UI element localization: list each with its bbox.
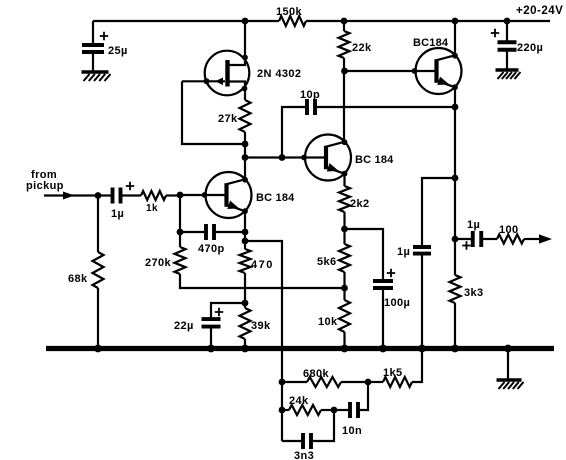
node 680k/1k5/10n junction xyxy=(365,379,372,386)
node output tee xyxy=(452,236,459,243)
wire 10n riser xyxy=(358,382,368,410)
svg-text:pickup: pickup xyxy=(26,180,64,192)
wire 10p to emitter line xyxy=(315,106,456,108)
capacitor 470p plates xyxy=(204,224,208,240)
svg-text:220µ: 220µ xyxy=(517,42,543,54)
resistor 680k xyxy=(307,377,341,387)
capacitor 10p plates xyxy=(305,99,309,115)
svg-text:470p: 470p xyxy=(198,243,225,255)
node rail/3k3 xyxy=(451,345,459,353)
resistor 470 xyxy=(240,249,251,273)
wire 68k to ground rail xyxy=(97,288,99,348)
node rail/100u xyxy=(379,345,387,353)
wire 1u to 100 xyxy=(482,238,498,240)
svg-text:3k3: 3k3 xyxy=(464,287,484,299)
svg-text:22k: 22k xyxy=(352,42,372,54)
svg-text:68k: 68k xyxy=(68,273,88,285)
svg-text:470: 470 xyxy=(251,259,274,271)
node rail/1u-1k5 xyxy=(418,345,426,353)
wire 100u to ground rail xyxy=(382,288,384,348)
wire 680k to node xyxy=(341,381,368,383)
polarity + of 100u xyxy=(387,269,395,277)
wire 5k6 to divider node xyxy=(343,272,345,300)
node rail/22u xyxy=(207,345,215,353)
node 1k/base junction xyxy=(177,192,184,199)
capacitor 220u plates xyxy=(498,40,517,44)
svg-text:BC 184: BC 184 xyxy=(256,192,295,204)
resistor 150k (series in rail) xyxy=(279,16,306,26)
wire node to Q2 collector xyxy=(244,157,246,180)
wire 680k left stub xyxy=(282,381,307,383)
capacitor 10n plates xyxy=(348,402,352,418)
node 470p/emitter junction xyxy=(242,229,249,236)
capacitor 3n3 plates xyxy=(301,433,305,449)
svg-text:680k: 680k xyxy=(303,368,330,380)
ground (under 220u) xyxy=(496,68,519,71)
wire base node down xyxy=(179,195,181,247)
wire Q4 base xyxy=(345,70,437,72)
svg-text:270k: 270k xyxy=(145,257,172,269)
svg-text:39k: 39k xyxy=(251,320,271,332)
wire gate loop xyxy=(182,81,245,144)
node 680k/24k branch xyxy=(279,379,286,386)
svg-text:5k6: 5k6 xyxy=(317,256,337,268)
resistor 5k6 xyxy=(339,244,350,272)
node divider junction xyxy=(341,285,348,292)
node Q4-base tee xyxy=(341,68,348,75)
svg-text:+20-24V: +20-24V xyxy=(516,5,563,17)
wire 24k left stub xyxy=(282,409,289,411)
wire Q3 base xyxy=(245,156,326,158)
node 100u tee xyxy=(341,226,348,233)
resistor 100 xyxy=(497,235,524,244)
gate lead with arrow xyxy=(182,80,225,82)
capacitor 1u (output) plates xyxy=(471,231,475,247)
wire output to 1u xyxy=(455,238,473,240)
node rail/10k xyxy=(341,345,349,353)
wire 270k elbow to divider xyxy=(180,274,344,288)
wire rail to C 25u xyxy=(92,21,94,44)
wire 39k to ground rail xyxy=(244,339,246,348)
wire input with arrow xyxy=(44,194,112,196)
wire 3n3 loop left xyxy=(282,440,303,442)
node feedback tee xyxy=(242,238,249,245)
wire output node to 3k3 xyxy=(454,239,456,275)
resistor 10k xyxy=(339,300,350,332)
node rail/22k junction xyxy=(341,18,348,25)
wire 1k5 left stub xyxy=(368,381,383,383)
wire rail to 22k xyxy=(343,21,345,31)
svg-text:22µ: 22µ xyxy=(174,320,194,332)
wire 22k to Q3 collector xyxy=(343,58,345,141)
svg-text:1k: 1k xyxy=(146,203,158,214)
transistor Q2 BC184 xyxy=(206,172,252,218)
svg-text:24k: 24k xyxy=(289,395,309,407)
polarity + of 25u xyxy=(100,32,108,40)
svg-text:10k: 10k xyxy=(318,316,338,328)
node rail/220u junction xyxy=(504,18,511,25)
wire Q4 collector riser xyxy=(454,21,456,56)
wire 10n left stub xyxy=(334,409,350,411)
transistor Q3 BC184 (middle) xyxy=(305,135,351,181)
resistor 22k xyxy=(339,31,350,58)
transistor Q4 BC184 (top right) xyxy=(416,48,462,94)
svg-text:1µ: 1µ xyxy=(111,208,124,220)
resistor 270k xyxy=(175,247,186,274)
svg-text:1µ: 1µ xyxy=(467,219,480,231)
wire feedback drop xyxy=(245,241,282,441)
node 24k branch xyxy=(279,407,286,414)
wire bootstrap elbow xyxy=(422,178,455,247)
polarity + of 22u xyxy=(215,308,223,316)
wire 27k to node xyxy=(244,132,246,157)
resistor 1k xyxy=(141,191,166,200)
wire bootstrap 1u to ground rail xyxy=(421,254,423,348)
wire Q4 emitter down xyxy=(454,87,456,239)
wire 22u to ground rail xyxy=(210,327,212,349)
ground (bottom right) xyxy=(497,378,522,381)
wire 10k to ground rail xyxy=(343,332,345,348)
node 27k/gate-loop junction xyxy=(242,141,249,148)
wire 68k top xyxy=(97,196,99,253)
wire 220u to ground xyxy=(506,50,508,70)
resistor 2k2 xyxy=(339,186,350,212)
node base-line tee xyxy=(242,154,249,161)
wire Q2 emitter down xyxy=(244,211,246,249)
resistor 1k5 xyxy=(383,377,412,387)
wire Q3 emitter to 2k2 xyxy=(343,174,345,186)
svg-text:BC184: BC184 xyxy=(413,37,449,49)
svg-text:2k2: 2k2 xyxy=(350,198,370,210)
wire ground stub xyxy=(507,348,509,380)
capacitor 1u (bootstrap) plates xyxy=(413,245,431,249)
wire rail to C 220u xyxy=(506,21,508,42)
wire Q2 base xyxy=(180,194,227,196)
node 24k/10n/3n3 junction xyxy=(331,407,338,414)
svg-text:10p: 10p xyxy=(300,89,320,101)
svg-text:25µ: 25µ xyxy=(108,45,128,57)
resistor 39k xyxy=(240,308,251,339)
wire 100u elbow xyxy=(345,229,384,281)
resistor 24k xyxy=(289,405,321,415)
svg-text:150k: 150k xyxy=(276,6,303,18)
svg-text:27k: 27k xyxy=(218,113,238,125)
capacitor 25u plates xyxy=(82,43,104,47)
node rail/68k xyxy=(94,345,102,353)
wire 470p right xyxy=(214,231,245,233)
node rail/Q4 collector xyxy=(452,18,459,25)
svg-text:10n: 10n xyxy=(342,425,362,437)
wire 3n3 loop right xyxy=(311,410,334,441)
wire 1k5 riser to rail xyxy=(412,350,422,382)
node 10p tap on base line xyxy=(279,154,286,161)
wire 25u to ground xyxy=(92,52,94,72)
svg-text:100: 100 xyxy=(499,224,519,236)
node input/68k junction xyxy=(95,192,102,199)
polarity + of input 1u xyxy=(126,182,134,190)
wire 24k to node xyxy=(321,409,334,411)
polarity + of 220u xyxy=(491,29,499,37)
wire 22u elbow xyxy=(211,303,245,319)
transistor Q1 2N4302 body xyxy=(205,51,250,96)
capacitor 22u plates xyxy=(202,317,221,321)
wire 3k3 to ground rail xyxy=(454,303,456,348)
capacitor 1u (input) plates xyxy=(111,188,115,204)
node rail/39k xyxy=(241,345,249,353)
wire source stub xyxy=(230,82,246,101)
node rail/ground stub xyxy=(504,345,512,353)
wire output with arrow xyxy=(524,238,540,240)
svg-text:1µ: 1µ xyxy=(397,246,410,258)
resistor 3k3 xyxy=(450,275,461,303)
wire cap to 1k xyxy=(121,194,142,196)
wire drain riser xyxy=(230,21,246,65)
resistor 27k xyxy=(240,100,251,132)
ground (under 25u) xyxy=(82,70,109,73)
capacitor 100u plates xyxy=(373,279,393,283)
wire 2k2 to 5k6 xyxy=(343,212,345,244)
svg-text:1k5: 1k5 xyxy=(383,367,403,379)
svg-text:3n3: 3n3 xyxy=(294,450,314,460)
wire 470 to 22u node xyxy=(244,273,246,308)
svg-text:BC 184: BC 184 xyxy=(355,154,394,166)
power rail +20-24V (left segment) xyxy=(93,20,279,22)
polarity + of output 1u xyxy=(462,241,470,249)
node 22u tee xyxy=(242,300,249,307)
node rail/drain junction xyxy=(242,18,249,25)
power rail +20-24V (right segment) xyxy=(306,20,550,22)
wire 10p drop xyxy=(282,107,307,158)
svg-text:2N 4302: 2N 4302 xyxy=(257,68,301,80)
wire 470p left xyxy=(180,231,206,233)
ground rail xyxy=(46,346,554,351)
resistor 68k xyxy=(93,252,104,288)
wire 1k to base node xyxy=(166,194,180,196)
svg-text:100µ: 100µ xyxy=(384,297,410,309)
node bootstrap tee xyxy=(452,175,459,182)
node 470p tee xyxy=(177,229,184,236)
node 10p/emitter junction xyxy=(452,104,459,111)
